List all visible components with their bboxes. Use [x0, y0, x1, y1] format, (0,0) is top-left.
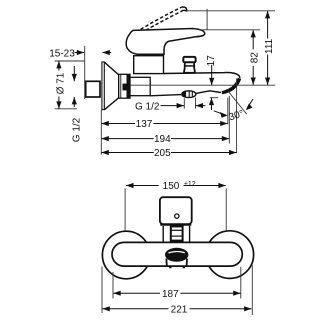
svg-text:82: 82	[250, 52, 261, 64]
outlet G1/2	[177, 103, 184, 108]
svg-text:±12: ±12	[184, 181, 196, 188]
30 deg leader	[220, 112, 228, 118]
svg-text:G 1/2: G 1/2	[135, 102, 160, 113]
dim 82 line	[252, 30, 254, 50]
spout reference line	[130, 84, 275, 86]
connecting pipe	[130, 77, 150, 95]
handle (solid, closed position)	[126, 29, 205, 55]
O71	[56, 61, 61, 68]
dim G1/2 square stems	[73, 66, 75, 81]
205	[101, 150, 108, 155]
ext line under spout tip	[210, 97, 218, 99]
diverter knob on spout	[183, 57, 195, 73]
dim 150 line	[126, 185, 158, 187]
137	[101, 121, 108, 126]
arrowheads side view	[56, 11, 270, 155]
svg-text:150: 150	[163, 181, 180, 192]
dim 187 line	[113, 292, 160, 294]
cartridge neck foot	[173, 241, 181, 243]
ext line 187 right	[240, 267, 242, 299]
15-23	[77, 50, 84, 55]
cartridge housing under handle	[134, 56, 164, 74]
escutcheon back plate	[102, 62, 104, 110]
dim 15-23 stems	[75, 52, 85, 54]
handle screw dot	[175, 214, 179, 218]
handle inner contour	[196, 34, 205, 37]
aerator collar	[166, 259, 187, 267]
svg-text:221: 221	[171, 305, 188, 316]
spout end face (dark band)	[222, 78, 240, 92]
30deg leader	[214, 111, 221, 114]
ext line 221 left	[101, 267, 103, 314]
ext line wall plane	[84, 46, 86, 99]
ext line 205 right	[236, 79, 238, 154]
30 degree plane line	[228, 91, 247, 114]
ext line 137 right	[227, 98, 229, 125]
svg-text:194: 194	[154, 134, 171, 145]
right escutcheon circle	[206, 231, 254, 279]
body / spout top edge	[164, 73, 240, 78]
17	[209, 78, 214, 85]
short vertical joint between top ext lines	[206, 9, 208, 30]
body underside	[150, 95, 181, 96]
G1/2 square	[72, 74, 77, 81]
194	[101, 136, 108, 141]
svg-text:111: 111	[264, 38, 275, 54]
ext line bottom of escutcheon (O71 bottom)	[55, 108, 77, 110]
30 deg plane arrow	[246, 103, 253, 110]
111	[265, 11, 270, 18]
collar feet	[170, 267, 184, 269]
escutcheon cone	[104, 62, 118, 109]
dim outlet G1/2 leader	[161, 105, 185, 107]
dim 194 line	[101, 138, 153, 140]
ext line escutcheon back, down to 205 dim	[100, 110, 102, 155]
body (pill)	[112, 242, 242, 266]
ext line 194 right	[228, 96, 230, 144]
handle bottom thick edge	[160, 224, 191, 226]
dashed raised handle (open position)	[127, 7, 184, 42]
ext line 150 right	[225, 189, 227, 231]
dim 137 line	[101, 123, 135, 125]
svg-text:Ø 71: Ø 71	[55, 72, 66, 94]
ext line top of escutcheon (O71 top)	[55, 60, 85, 62]
svg-text:15-23: 15-23	[49, 48, 75, 59]
svg-text:205: 205	[154, 148, 171, 159]
cartridge neck outer	[163, 226, 189, 243]
svg-text:137: 137	[136, 119, 153, 130]
ext line 187 left	[112, 272, 114, 299]
square wall nipple G1/2	[86, 81, 100, 97]
ext line handle top	[199, 29, 260, 31]
ext line 150 left	[124, 189, 126, 231]
left escutcheon circle	[102, 231, 150, 279]
texts side view	[49, 38, 275, 159]
ext lines outlet G1/2	[183, 98, 185, 108]
dim O71 line	[58, 61, 60, 71]
dashed handle tip	[182, 7, 187, 11]
ext line 221 right	[251, 265, 253, 315]
cartridge neck inner	[171, 226, 183, 240]
dim 205 line	[101, 152, 153, 154]
svg-text:187: 187	[162, 289, 179, 300]
svg-text:17: 17	[206, 55, 217, 67]
aerator dark ellipse	[165, 248, 188, 262]
aerator slit in end band	[221, 84, 231, 92]
svg-text:G 1/2: G 1/2	[72, 117, 83, 142]
shower outlet (bottom oval)	[182, 91, 196, 98]
dim 111 line	[267, 11, 269, 39]
dim 17 stems	[211, 65, 213, 86]
dim 221 line	[102, 308, 168, 310]
221 arrows	[102, 306, 109, 311]
82	[251, 30, 256, 37]
handle top view	[160, 197, 192, 224]
union nut	[119, 74, 130, 98]
187 arrows	[113, 291, 120, 296]
150 arrows	[126, 183, 133, 188]
ext line raised handle top	[187, 10, 275, 12]
